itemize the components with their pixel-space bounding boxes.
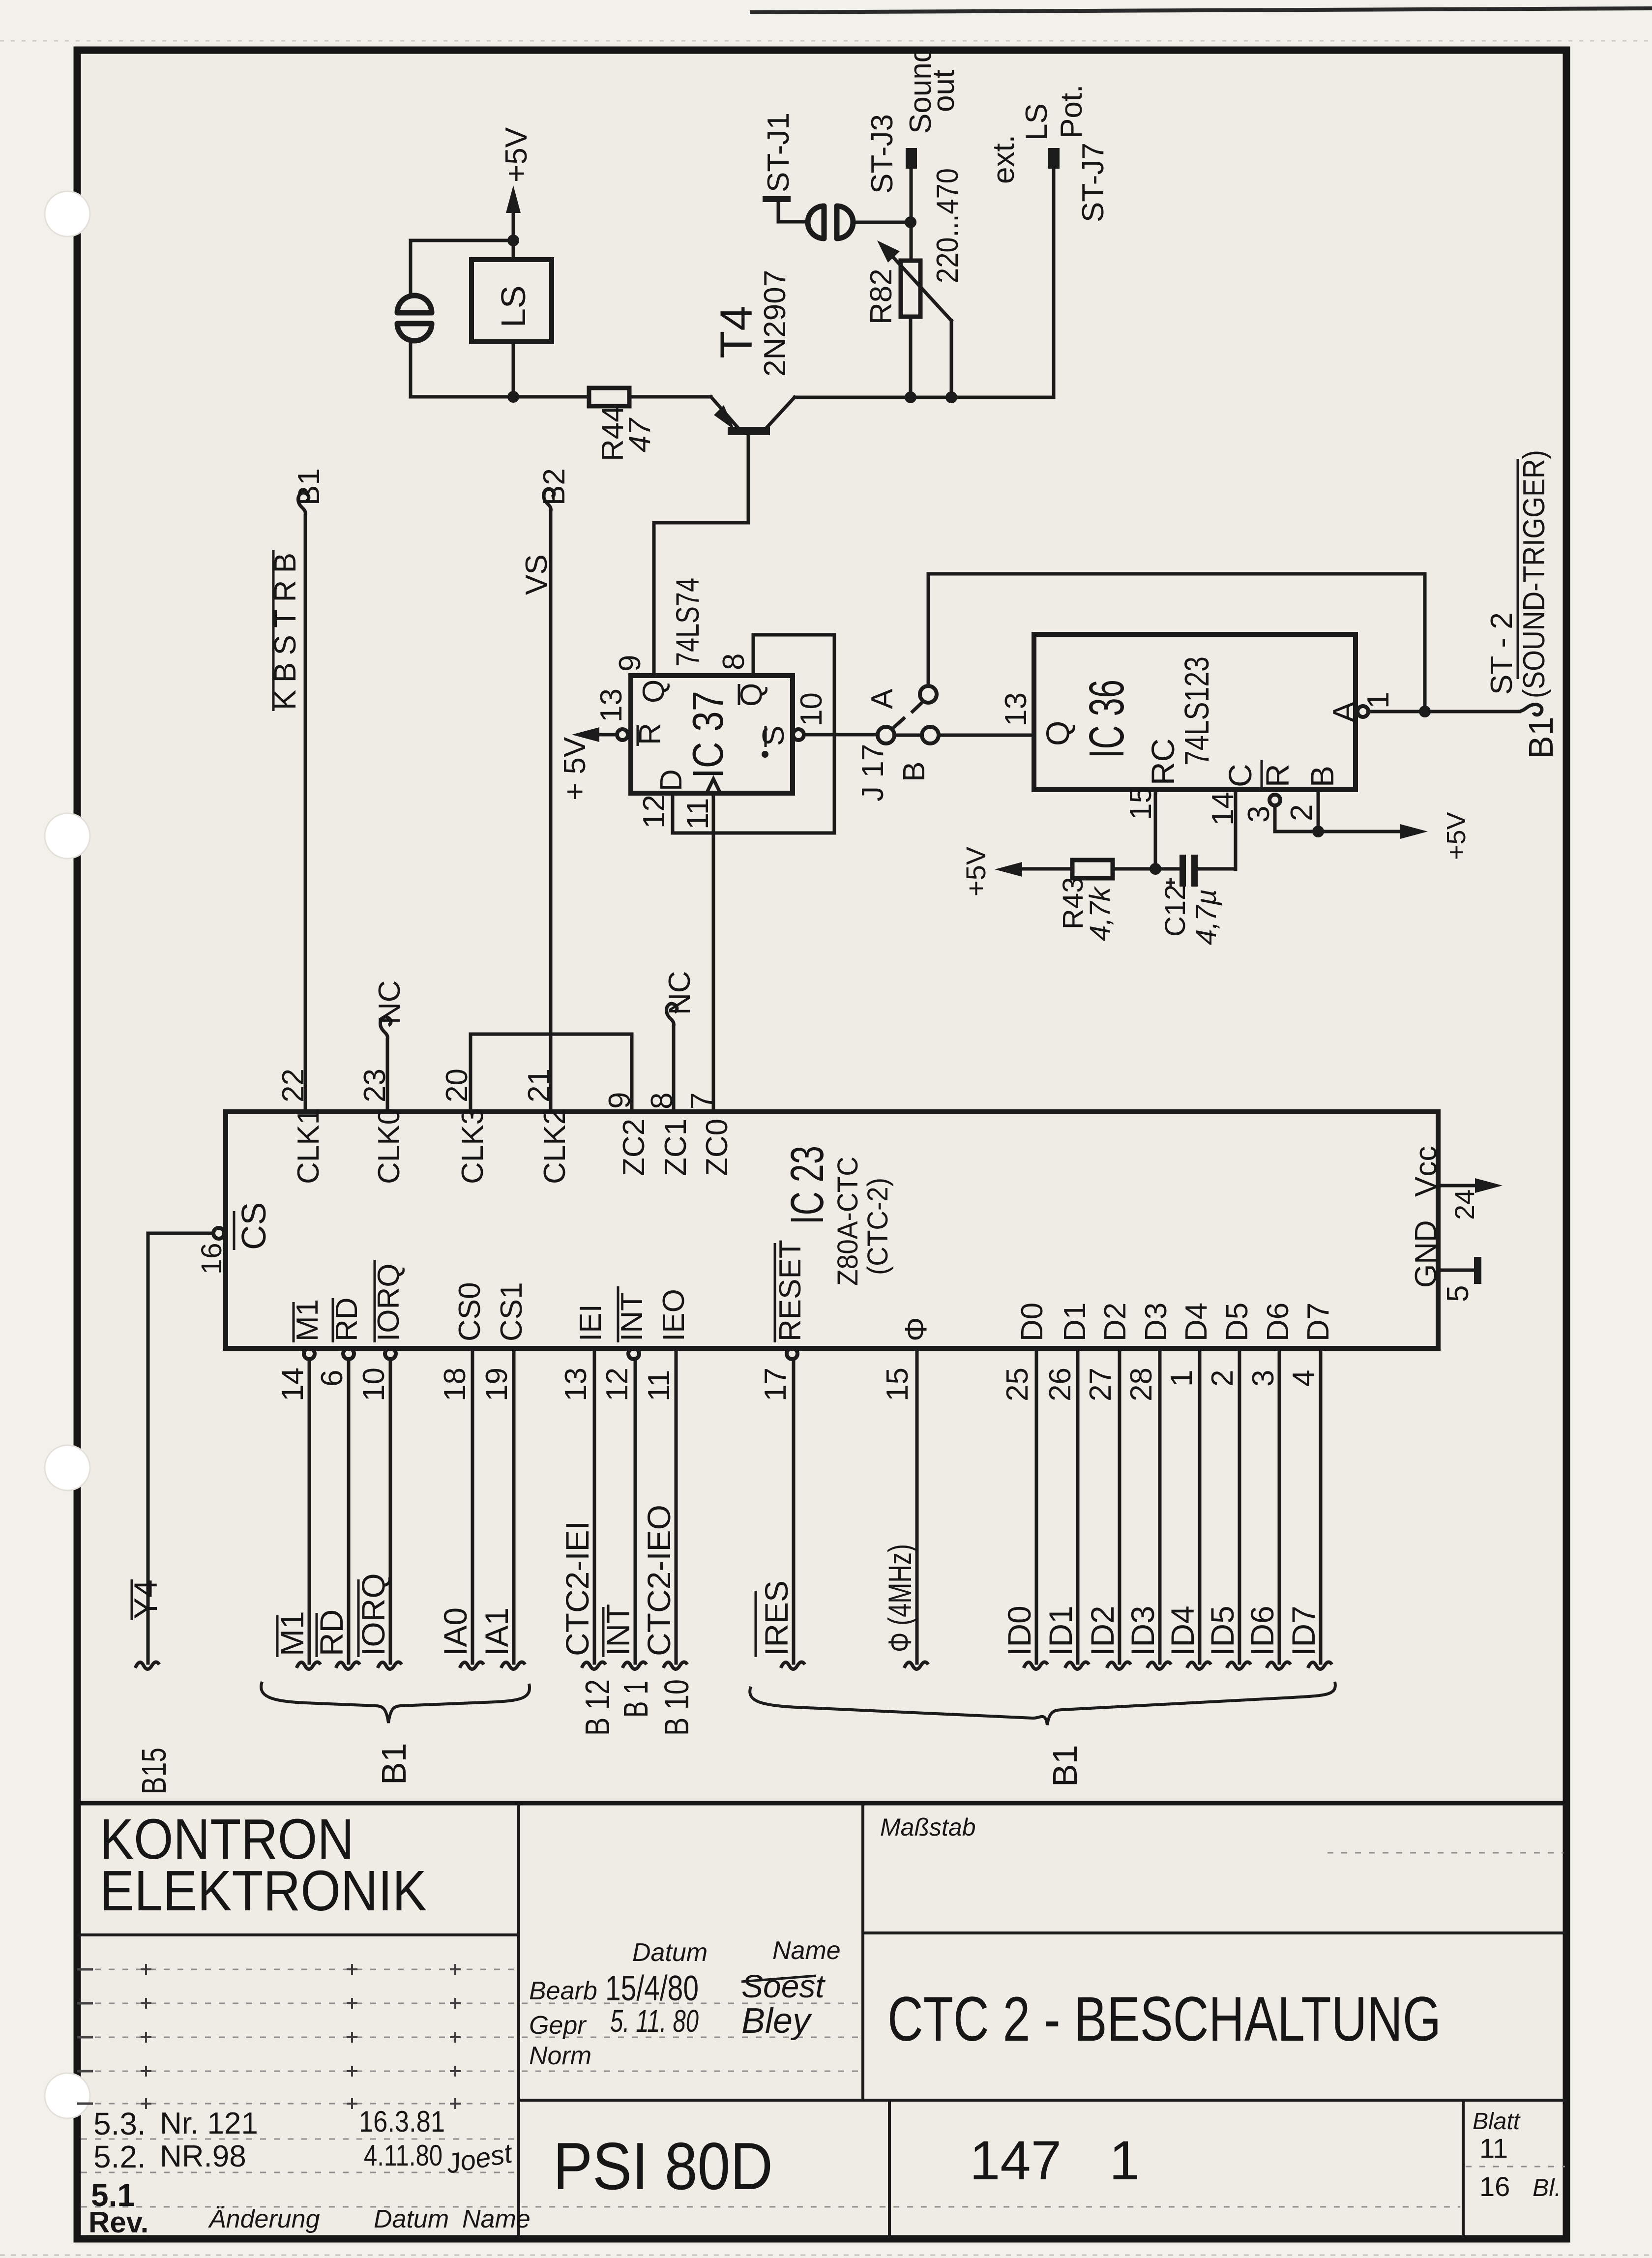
svg-text:ext.: ext. <box>987 135 1021 184</box>
svg-text:IC 36: IC 36 <box>1079 680 1134 758</box>
svg-text:CS1: CS1 <box>495 1282 529 1341</box>
svg-text:IORQ: IORQ <box>355 1573 391 1656</box>
svg-text:D7: D7 <box>1301 1303 1335 1341</box>
pin 24 Vcc <box>1409 1146 1503 1220</box>
svg-text:Gepr: Gepr <box>529 2011 587 2040</box>
svg-text:14: 14 <box>1206 792 1240 826</box>
wire ID5 <box>1204 1348 1251 1669</box>
svg-text:4: 4 <box>1287 1370 1321 1387</box>
svg-text:1: 1 <box>1109 2130 1140 2191</box>
svg-text:B1: B1 <box>375 1743 413 1785</box>
svg-text:+5V: +5V <box>1442 812 1471 860</box>
svg-text:15/4/80: 15/4/80 <box>605 1969 699 2008</box>
wire R44 to T4 base <box>629 395 711 399</box>
pin 3 Rbar <box>1242 760 1296 832</box>
pin 12 INTbar <box>600 1286 649 1401</box>
wire M1 <box>274 1359 321 1669</box>
revision row 5.3 <box>93 2105 445 2141</box>
svg-text:27: 27 <box>1084 1367 1118 1401</box>
svg-text:21: 21 <box>522 1069 556 1102</box>
svg-text:15: 15 <box>1124 786 1158 820</box>
sheet number Blatt 11 / 16 Bl. <box>1473 2109 1561 2202</box>
svg-text:8: 8 <box>645 1093 679 1109</box>
svg-text:VS: VS <box>520 554 554 595</box>
svg-text:IA0: IA0 <box>437 1607 473 1656</box>
wire speaker to bottom rail <box>409 340 413 397</box>
pin 9 Q label <box>613 655 671 703</box>
svg-text:Datum: Datum <box>374 2205 449 2233</box>
svg-text:A: A <box>1326 701 1362 723</box>
svg-text:17: 17 <box>759 1367 793 1401</box>
connector pin ST-J7 ext. LS Pot. <box>987 85 1110 397</box>
svg-text:10: 10 <box>795 692 828 726</box>
node at LS top / +5V <box>507 235 519 246</box>
loudspeaker box LS <box>472 240 552 397</box>
svg-text:RC: RC <box>1145 739 1181 785</box>
pin 25 D0 <box>1001 1303 1049 1401</box>
pin 13 Rbar to +5V <box>558 688 667 801</box>
labels Aenderung Datum Name <box>207 2205 531 2233</box>
speaker jack symbol (internal LS connector) <box>397 296 432 341</box>
svg-text:Q: Q <box>1039 721 1076 746</box>
pin 10 Sbar output to J17 <box>757 692 877 758</box>
svg-text:D0: D0 <box>1015 1303 1049 1341</box>
svg-text:Vcc: Vcc <box>1409 1146 1443 1197</box>
svg-text:22: 22 <box>276 1069 310 1102</box>
svg-text:B 10: B 10 <box>657 1679 696 1736</box>
svg-text:12: 12 <box>600 1367 634 1401</box>
wire CTC2-IEO <box>641 1348 696 1736</box>
wire J17 A up and over to IC36 pin 1 node <box>928 574 1425 712</box>
svg-text:3: 3 <box>1242 806 1276 823</box>
svg-text:R: R <box>1259 764 1296 787</box>
svg-text:ST - 2: ST - 2 <box>1485 612 1519 695</box>
pin 7 ZC0 <box>685 1093 734 1176</box>
svg-text:74LS74: 74LS74 <box>669 578 706 666</box>
transistor T4 2N2907 <box>711 270 795 523</box>
node under LS box <box>507 391 519 403</box>
svg-text:ST-J3: ST-J3 <box>865 114 899 194</box>
wire IA1 <box>478 1348 525 1669</box>
svg-text:NC: NC <box>373 980 407 1024</box>
title block dashed separators <box>81 1853 1565 2207</box>
wire ID4 <box>1164 1348 1211 1669</box>
pin 18 CS0 <box>438 1282 487 1401</box>
pin 8 ZC1 NC stub <box>645 971 697 1176</box>
capacitor C12 4,7u polarized <box>1155 855 1236 945</box>
svg-text:CS0: CS0 <box>453 1282 487 1341</box>
pin 1 A output to ST-2 <box>1326 692 1542 723</box>
svg-text:9: 9 <box>603 1092 637 1109</box>
svg-text:5. 11. 80: 5. 11. 80 <box>610 2003 699 2039</box>
svg-text:4.11.80: 4.11.80 <box>364 2139 442 2172</box>
net VS from B2 <box>520 468 571 1112</box>
svg-text:LS: LS <box>494 285 532 327</box>
title block grid lines <box>77 1803 1566 2239</box>
svg-text:T4: T4 <box>711 306 762 358</box>
svg-text:7: 7 <box>685 1093 719 1109</box>
pin 1 D4 <box>1165 1303 1213 1387</box>
svg-text:14: 14 <box>276 1367 310 1401</box>
svg-text:ID1: ID1 <box>1042 1605 1079 1656</box>
wire ID7 <box>1285 1348 1332 1669</box>
svg-text:Soest: Soest <box>741 1968 826 2004</box>
svg-text:147: 147 <box>970 2130 1062 2191</box>
svg-text:CTC2-IEI: CTC2-IEI <box>559 1521 595 1656</box>
svg-text:IC 23: IC 23 <box>781 1146 833 1224</box>
pin 13 IEI <box>559 1304 608 1401</box>
svg-text:Änderung: Änderung <box>207 2205 320 2233</box>
wire IA0 <box>437 1348 484 1669</box>
svg-text:IRES: IRES <box>758 1580 795 1656</box>
svg-text:ELEKTRONIK: ELEKTRONIK <box>100 1859 427 1923</box>
svg-text:18: 18 <box>438 1367 472 1401</box>
label Datum / Name header <box>632 1936 841 1967</box>
punch hole 4 <box>45 2073 90 2118</box>
drawing number 147 1 <box>970 2130 1140 2191</box>
svg-text:Q: Q <box>637 680 671 703</box>
label Rev. <box>88 2206 148 2239</box>
svg-text:+5V: +5V <box>960 846 991 896</box>
svg-text:ID0: ID0 <box>1001 1605 1037 1656</box>
svg-text:8: 8 <box>717 654 751 670</box>
svg-text:47: 47 <box>623 417 657 452</box>
svg-text:2: 2 <box>1206 1370 1239 1387</box>
svg-text:15: 15 <box>881 1367 914 1401</box>
pin 14 C <box>1206 764 1258 869</box>
svg-text:D4: D4 <box>1180 1303 1213 1341</box>
svg-text:J 17: J 17 <box>856 744 890 802</box>
svg-text:Z80A-CTC: Z80A-CTC <box>832 1157 864 1286</box>
pin 11 IEO <box>642 1289 691 1401</box>
svg-text:16: 16 <box>1479 2171 1510 2202</box>
wire pins 2,3 to +5V <box>1275 812 1471 860</box>
svg-text:ZC1: ZC1 <box>659 1119 693 1176</box>
scan artifact top right line <box>0 8 1652 41</box>
svg-text:6: 6 <box>315 1370 349 1387</box>
brace bus B1 right group <box>750 1682 1335 1787</box>
svg-text:B 1: B 1 <box>617 1681 655 1718</box>
svg-text:D: D <box>654 769 688 791</box>
wire jack to sound-out node <box>854 221 911 224</box>
row Gepr 5.11.80 Bley <box>529 2001 812 2041</box>
svg-text:(CTC-2): (CTC-2) <box>862 1178 894 1275</box>
pin 26 D1 <box>1043 1303 1092 1401</box>
resistor R44 value 47 <box>589 388 657 461</box>
svg-text:+ 5V: + 5V <box>558 737 592 801</box>
wire +5V node to speaker branch <box>411 239 513 242</box>
svg-text:B 12: B 12 <box>578 1679 617 1736</box>
svg-text:4,7k: 4,7k <box>1084 886 1116 941</box>
svg-text:(SOUND-TRIGGER): (SOUND-TRIGGER) <box>1517 450 1551 698</box>
svg-text:2N2907: 2N2907 <box>758 270 792 377</box>
pin 8 Qbar with feedback wire to pin 12 D <box>637 635 834 833</box>
svg-text:23: 23 <box>358 1069 392 1102</box>
svg-text:+5V: +5V <box>500 127 533 182</box>
company name KONTRON ELEKTRONIK <box>100 1807 427 1923</box>
svg-text:D3: D3 <box>1139 1303 1173 1341</box>
wire T4 base to IC37 pin 9 <box>654 523 748 676</box>
svg-text:B1: B1 <box>1522 716 1560 759</box>
connector pin ST-J3 Sound out <box>865 46 961 261</box>
pin 23 CLK0 NC stub <box>358 980 407 1184</box>
svg-text:9: 9 <box>613 655 647 672</box>
pin 21 CLK2 <box>522 1069 572 1184</box>
svg-text:13: 13 <box>559 1367 593 1401</box>
svg-text:ID7: ID7 <box>1285 1605 1322 1656</box>
pin 17 RESETbar <box>759 1240 807 1401</box>
svg-text:16.3.81: 16.3.81 <box>359 2105 445 2138</box>
svg-text:13: 13 <box>594 688 628 722</box>
pin 2 D5 <box>1206 1303 1254 1387</box>
svg-text:ID3: ID3 <box>1124 1605 1161 1656</box>
svg-text:CLK2: CLK2 <box>538 1108 572 1184</box>
svg-text:Norm: Norm <box>529 2042 591 2070</box>
svg-text:Name: Name <box>772 1936 841 1965</box>
node ST-J3 / jack <box>905 216 916 228</box>
svg-text:11: 11 <box>681 798 715 830</box>
svg-text:GND: GND <box>1409 1220 1443 1288</box>
svg-text:NR.98: NR.98 <box>160 2139 246 2173</box>
wire IORQ <box>355 1359 402 1669</box>
svg-text:ID2: ID2 <box>1084 1605 1121 1656</box>
pin 27 D2 <box>1084 1303 1132 1401</box>
svg-text:2: 2 <box>1285 804 1319 821</box>
svg-text:CLK3: CLK3 <box>456 1108 490 1184</box>
counter/timer IC 23 Z80A-CTC (CTC-2) <box>226 1112 1438 1348</box>
wire ID3 <box>1124 1348 1171 1669</box>
svg-text:ID5: ID5 <box>1204 1605 1240 1656</box>
svg-text:B: B <box>897 762 931 782</box>
pin 10 IORQbar <box>357 1260 406 1401</box>
pin 3 D6 <box>1246 1303 1295 1387</box>
svg-text:24: 24 <box>1449 1189 1480 1220</box>
svg-text:PSI 80D: PSI 80D <box>553 2129 773 2203</box>
svg-text:Bl.: Bl. <box>1533 2174 1561 2201</box>
svg-text:B15: B15 <box>135 1748 173 1794</box>
flip-flop IC 37 74LS74 <box>631 578 793 793</box>
wire bottom rail to R44 <box>411 395 589 399</box>
wire J17 B to IC36 pin 13 <box>939 734 1034 737</box>
wire CTC2-IEI <box>559 1348 617 1736</box>
svg-text:IEI: IEI <box>574 1304 608 1341</box>
net KBSTRB from B1 <box>268 468 326 1112</box>
wire ID1 <box>1042 1348 1089 1669</box>
svg-text:D2: D2 <box>1098 1303 1132 1341</box>
svg-text:Rev.: Rev. <box>88 2206 148 2239</box>
pin 15 phi clock <box>881 1317 933 1401</box>
svg-text:RD: RD <box>313 1609 350 1656</box>
pin 14 M1bar <box>276 1299 324 1401</box>
svg-text:10: 10 <box>357 1367 391 1401</box>
svg-text:12: 12 <box>637 795 671 829</box>
row Bearb 15/4/80 Soest <box>529 1968 826 2008</box>
svg-text:D5: D5 <box>1220 1303 1254 1341</box>
node R82 bottom <box>905 391 916 403</box>
svg-text:5: 5 <box>1441 1285 1475 1302</box>
svg-text:3: 3 <box>1246 1370 1280 1387</box>
svg-text:C: C <box>1222 764 1258 787</box>
wire ID2 <box>1084 1348 1131 1669</box>
pin 16 CSbar <box>148 1202 273 1275</box>
node wiper bottom <box>945 391 957 403</box>
svg-text:M1: M1 <box>291 1299 324 1341</box>
svg-text:26: 26 <box>1043 1367 1077 1401</box>
svg-text:RESET: RESET <box>773 1240 807 1341</box>
wire INT <box>600 1359 655 1718</box>
svg-text:Datum: Datum <box>632 1938 708 1967</box>
wire ID0 <box>1001 1348 1048 1669</box>
svg-text:11: 11 <box>642 1370 676 1401</box>
pin 6 RDbar <box>315 1297 364 1387</box>
pin 28 D3 <box>1124 1303 1173 1401</box>
svg-text:Nr. 121: Nr. 121 <box>160 2107 258 2140</box>
pin 15 RC <box>1124 739 1181 869</box>
wire T4 collector rail <box>795 396 1054 399</box>
svg-text:1: 1 <box>1165 1370 1199 1387</box>
svg-text:D1: D1 <box>1058 1303 1092 1341</box>
monoflop IC 36 74LS123 <box>1034 634 1356 790</box>
svg-text:Bley: Bley <box>741 2001 812 2041</box>
svg-text:M1: M1 <box>274 1611 310 1656</box>
svg-text:Bearb: Bearb <box>529 1977 597 2005</box>
pin 2 B <box>1285 766 1340 832</box>
brace bus B1 left group <box>261 1682 530 1785</box>
svg-text:ZC2: ZC2 <box>617 1119 651 1176</box>
svg-text:INT: INT <box>615 1292 649 1341</box>
punch hole 3 <box>45 1445 90 1490</box>
pin 19 CS1 <box>480 1282 529 1401</box>
svg-text:B1: B1 <box>292 468 326 505</box>
svg-text:Blatt: Blatt <box>1473 2109 1521 2135</box>
svg-text:Φ: Φ <box>899 1317 933 1341</box>
punch hole 2 <box>45 813 90 859</box>
pin 22 CLK1 <box>276 1069 325 1184</box>
svg-text:28: 28 <box>1124 1367 1158 1401</box>
svg-text:out: out <box>927 70 961 112</box>
pin 5 GND <box>1409 1220 1481 1302</box>
svg-text:CLK0: CLK0 <box>372 1108 406 1184</box>
scan artifact bottom faint line <box>0 2255 1652 2256</box>
svg-text:Maßstab: Maßstab <box>880 1813 976 1841</box>
svg-text:D6: D6 <box>1261 1303 1295 1341</box>
svg-text:19: 19 <box>480 1367 514 1401</box>
svg-text:CTC2-IEO: CTC2-IEO <box>641 1505 677 1656</box>
svg-text:ST-J1: ST-J1 <box>762 113 796 192</box>
svg-text:NC: NC <box>663 971 697 1015</box>
pin 13 Q input <box>999 692 1076 746</box>
wire IRES <box>756 1359 805 1669</box>
wire speaker branch down <box>409 240 413 295</box>
svg-text:Φ (4MHz): Φ (4MHz) <box>882 1544 918 1652</box>
pin 4 D7 <box>1287 1303 1335 1387</box>
svg-text:CLK1: CLK1 <box>292 1108 325 1184</box>
svg-text:B2: B2 <box>537 468 571 505</box>
svg-text:Pot.: Pot. <box>1055 85 1089 139</box>
wire ID6 <box>1244 1348 1291 1669</box>
pin 20 CLK3 feedback bracket from pin 9 ZC2 <box>440 1034 651 1184</box>
svg-text:R82: R82 <box>864 268 898 325</box>
net ST-2 (SOUND-TRIGGER) B1 <box>1485 450 1560 759</box>
wire phi 4MHz <box>882 1348 928 1669</box>
svg-text:ST-J7: ST-J7 <box>1076 143 1110 222</box>
+5V supply arrow (top left) <box>500 127 533 240</box>
svg-text:ZC0: ZC0 <box>700 1119 734 1176</box>
potentiometer R82 220...470 <box>864 168 965 397</box>
svg-text:S: S <box>757 726 791 746</box>
pin 11 clock input from ZC0 <box>681 779 720 1112</box>
svg-text:C12: C12 <box>1159 885 1191 937</box>
node pin15/R43/C12 <box>1150 863 1161 875</box>
svg-text:B1: B1 <box>1046 1745 1084 1787</box>
svg-text:4,7µ: 4,7µ <box>1190 889 1222 945</box>
svg-text:A: A <box>865 688 899 709</box>
svg-text:IC 37: IC 37 <box>683 691 732 778</box>
svg-text:11: 11 <box>1479 2133 1508 2164</box>
resistor R43 4,7k <box>960 846 1155 941</box>
svg-text:IEO: IEO <box>657 1289 691 1341</box>
svg-text:B: B <box>1304 766 1340 787</box>
revision row 5.2 <box>93 2137 515 2179</box>
svg-text:IORQ: IORQ <box>372 1264 406 1341</box>
wire RD <box>313 1359 360 1669</box>
net Y4 to B15 <box>127 1233 173 1794</box>
svg-text:ID6: ID6 <box>1244 1605 1280 1656</box>
svg-text:RD: RD <box>330 1297 364 1341</box>
svg-text:5.3.: 5.3. <box>93 2106 146 2141</box>
connector ST-J1 plug <box>762 113 807 222</box>
svg-text:CTC 2 - BESCHALTUNG: CTC 2 - BESCHALTUNG <box>887 1984 1441 2054</box>
punch hole 1 <box>45 191 90 237</box>
svg-text:1: 1 <box>1361 692 1395 709</box>
svg-text:CS: CS <box>235 1202 273 1250</box>
svg-text:220...470: 220...470 <box>931 168 965 283</box>
jumper J17 <box>856 686 939 802</box>
svg-text:20: 20 <box>440 1069 474 1102</box>
svg-text:16: 16 <box>196 1243 228 1275</box>
svg-text:INT: INT <box>600 1604 636 1656</box>
svg-text:25: 25 <box>1001 1367 1034 1401</box>
svg-text:LS: LS <box>1020 103 1054 141</box>
svg-text:74LS123: 74LS123 <box>1178 656 1216 766</box>
svg-text:IA1: IA1 <box>478 1607 515 1656</box>
svg-text:Name: Name <box>462 2205 531 2233</box>
jack socket symbol at ST-J1 <box>808 206 853 238</box>
svg-text:5.2.: 5.2. <box>93 2139 146 2174</box>
svg-text:ID4: ID4 <box>1164 1605 1201 1656</box>
svg-text:13: 13 <box>999 692 1033 726</box>
